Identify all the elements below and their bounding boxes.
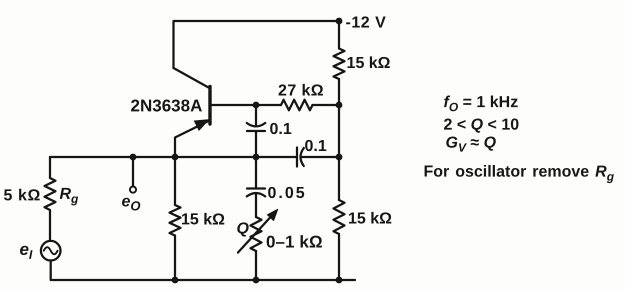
svg-text:0.1: 0.1 xyxy=(304,138,326,155)
transistor Q1 2N3638A (PNP) xyxy=(174,68,211,157)
node: R3 ground xyxy=(336,277,343,284)
resistor Rg 5 kOhm xyxy=(45,178,56,210)
svg-text:Q: Q xyxy=(236,220,249,237)
node: output bus / C2-C3 junction xyxy=(253,154,260,161)
node: C2 to right rail xyxy=(336,154,343,161)
node: eO tap xyxy=(130,154,137,161)
svg-text:GV ≈ Q: GV ≈ Q xyxy=(445,135,496,155)
resistor R3 15 kOhm (right) xyxy=(334,200,345,234)
svg-text:fO = 1 kHz: fO = 1 kHz xyxy=(444,94,519,114)
svg-text:0.05: 0.05 xyxy=(267,185,306,202)
node: emitter junction xyxy=(172,154,179,161)
node: base / C1 junction xyxy=(253,102,260,109)
wire: Rg to source eI xyxy=(49,210,51,241)
svg-text:15 kΩ: 15 kΩ xyxy=(348,211,392,228)
node: -12V supply terminal xyxy=(336,18,343,25)
capacitor C2 0.1 (output bus to right rail) xyxy=(297,148,339,167)
capacitor C1 0.1 (base node to output bus) xyxy=(247,105,265,157)
resistor R4 15 kOhm (emitter to ground) xyxy=(170,205,181,236)
resistor R2 27 kOhm (feedback) xyxy=(281,100,313,111)
potentiometer R5 0-1 kOhm (Q adjust) xyxy=(238,209,278,252)
resistor R1 15 kOhm (top right) xyxy=(334,49,345,80)
svg-text:For oscillator remove Rg: For oscillator remove Rg xyxy=(423,164,614,184)
svg-text:-12 V: -12 V xyxy=(346,15,387,32)
svg-text:15 kΩ: 15 kΩ xyxy=(181,211,225,228)
wire: output bus to R4 xyxy=(174,157,176,205)
svg-text:5 kΩ: 5 kΩ xyxy=(3,187,40,204)
wire: R4 to bottom rail xyxy=(174,236,176,281)
wire: output bus corner down to Rg xyxy=(49,157,51,178)
svg-text:27 kΩ: 27 kΩ xyxy=(278,82,324,99)
wire: R2 to right rail xyxy=(313,104,340,106)
wire: R1 to collector feedback node xyxy=(338,79,340,105)
svg-text:2N3638A: 2N3638A xyxy=(131,96,203,115)
wire: output bus to C3 xyxy=(255,157,257,188)
wire: right rail middle segment xyxy=(338,105,340,157)
wire: emitter/output bus y=157 xyxy=(50,156,297,158)
wire: bottom ground rail xyxy=(51,261,355,281)
node: R4 ground xyxy=(172,277,179,284)
node: R5 ground xyxy=(253,277,260,284)
svg-text:eO: eO xyxy=(121,193,140,213)
node: R1-R2 feedback junction xyxy=(336,102,343,109)
svg-text:15 kΩ: 15 kΩ xyxy=(347,55,391,72)
wire: right rail to R3 xyxy=(338,157,340,200)
svg-text:2 < Q < 10: 2 < Q < 10 xyxy=(444,117,520,134)
capacitor C3 0.05 xyxy=(247,189,265,218)
wire: R5 to bottom rail xyxy=(255,251,257,280)
svg-text:Rg: Rg xyxy=(59,186,79,206)
source eI (sine generator) xyxy=(41,241,61,261)
wire: top supply rail (collector riser to -12V terminal) xyxy=(174,21,340,68)
svg-text:eI: eI xyxy=(19,240,32,262)
terminal eO (output tap) xyxy=(130,157,136,193)
wire: R3 to bottom rail xyxy=(338,234,340,280)
svg-text:0–1 kΩ: 0–1 kΩ xyxy=(266,232,323,251)
wire: base lead from transistor to R2 xyxy=(212,104,282,106)
wire: right rail from -12V down to R1 xyxy=(338,21,340,49)
svg-text:0.1: 0.1 xyxy=(270,121,292,138)
